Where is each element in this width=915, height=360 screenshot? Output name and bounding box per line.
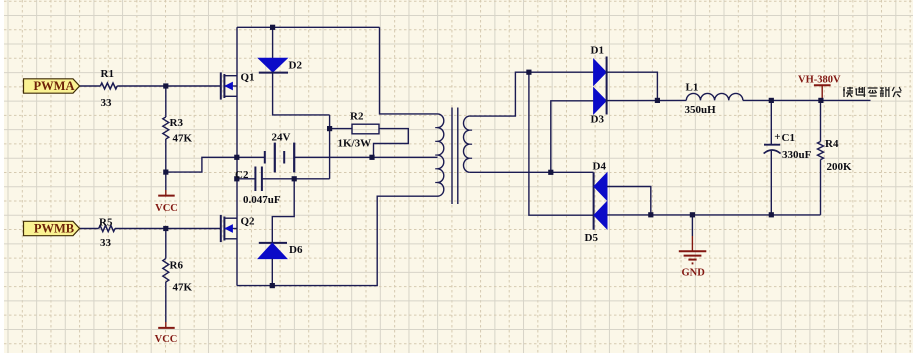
svg-text:Q1: Q1 (241, 72, 255, 84)
svg-text:PWMB: PWMB (34, 222, 74, 236)
svg-text:D3: D3 (591, 114, 605, 126)
svg-text:R5: R5 (99, 217, 113, 229)
svg-text:350uH: 350uH (685, 104, 717, 116)
svg-text:L1: L1 (686, 82, 699, 94)
svg-text:1K/3W: 1K/3W (338, 138, 372, 150)
svg-text:C2: C2 (235, 169, 249, 181)
svg-text:VCC: VCC (155, 334, 178, 345)
svg-text:PWMA: PWMA (34, 79, 75, 93)
svg-text:R1: R1 (101, 68, 114, 80)
svg-text:33: 33 (101, 97, 113, 109)
svg-text:VH-380V: VH-380V (798, 75, 841, 86)
svg-text:200K: 200K (827, 161, 853, 173)
svg-text:D6: D6 (289, 244, 303, 256)
svg-text:R6: R6 (170, 260, 184, 272)
svg-text:VCC: VCC (155, 203, 178, 214)
svg-text:R2: R2 (350, 111, 364, 123)
svg-text:D2: D2 (289, 60, 303, 72)
svg-text:D4: D4 (593, 160, 607, 172)
svg-text:+: + (774, 131, 780, 143)
svg-text:47K: 47K (173, 133, 193, 145)
svg-text:33: 33 (100, 237, 112, 249)
svg-text:GND: GND (682, 268, 706, 279)
svg-text:D5: D5 (585, 232, 599, 244)
svg-text:24V: 24V (272, 132, 291, 144)
svg-text:R3: R3 (170, 117, 184, 129)
svg-text:Q2: Q2 (241, 216, 256, 228)
svg-text:C1: C1 (782, 132, 795, 144)
svg-text:D1: D1 (591, 45, 604, 57)
svg-text:330uF: 330uF (782, 149, 812, 161)
svg-text:0.047uF: 0.047uF (243, 194, 281, 206)
svg-text:47K: 47K (173, 282, 193, 294)
svg-text:R4: R4 (825, 138, 839, 150)
